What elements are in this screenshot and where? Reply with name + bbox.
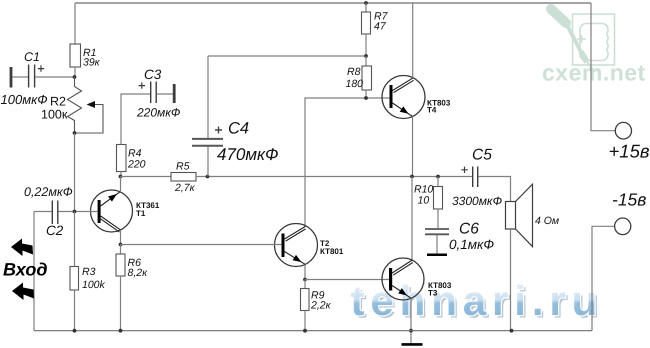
wire T3 collector lead bbox=[411, 177, 413, 260]
wire R1 bottom lead bbox=[74, 67, 76, 77]
capacitor C3 bbox=[139, 82, 175, 104]
wire T1 collector to T2 base bbox=[121, 244, 282, 246]
svg-text:100к: 100к bbox=[41, 108, 68, 122]
transistor T4 bbox=[382, 76, 425, 119]
node R7 top bbox=[364, 1, 368, 5]
wire C4 top lead bbox=[207, 56, 209, 138]
transistor T3 bbox=[382, 258, 424, 300]
input arrow lower bbox=[12, 283, 34, 301]
wire R7 bottom lead bbox=[365, 34, 367, 56]
wire T2 collector to T4 base bbox=[305, 98, 390, 227]
wire R6 bottom lead bbox=[120, 276, 122, 331]
node C4 bottom bbox=[206, 175, 210, 179]
label T3 bbox=[428, 281, 452, 298]
transistor T1 bbox=[91, 190, 133, 232]
R2 wiper arrow bbox=[87, 101, 96, 108]
wire output net bbox=[196, 176, 472, 178]
svg-text:100мкФ: 100мкФ bbox=[1, 92, 48, 107]
wire R4 bottom lead bbox=[120, 172, 122, 177]
svg-text:10: 10 bbox=[418, 195, 430, 207]
capacitor C6 bbox=[425, 229, 449, 234]
cxem.net logo watermark bbox=[551, 9, 615, 72]
speaker bbox=[506, 184, 533, 246]
capacitor C1 bbox=[11, 65, 44, 88]
node R1/C1/R2 bbox=[73, 75, 77, 79]
svg-text:220мкФ: 220мкФ bbox=[136, 106, 181, 120]
node T1 collector / R6 bbox=[119, 243, 123, 247]
wire T3 emitter lead to ground bbox=[410, 298, 412, 343]
wire C1 to R1 node bbox=[35, 76, 75, 78]
node R8/T4 base bbox=[364, 96, 368, 100]
svg-text:Т4: Т4 bbox=[427, 106, 437, 115]
label R4 value bbox=[127, 148, 146, 171]
label R9 value bbox=[310, 290, 332, 312]
wire R2 to base node bbox=[74, 133, 76, 212]
svg-text:R2: R2 bbox=[50, 95, 66, 109]
svg-text:3300мкФ: 3300мкФ bbox=[452, 194, 503, 208]
label R10 value bbox=[414, 184, 433, 207]
svg-text:Т3: Т3 bbox=[428, 289, 438, 298]
svg-text:39к: 39к bbox=[83, 57, 101, 69]
svg-text:R8: R8 bbox=[347, 66, 361, 78]
svg-text:R3: R3 bbox=[82, 266, 96, 278]
wire top rail bbox=[75, 2, 591, 4]
wire R7/R8 bootstrap bbox=[208, 55, 366, 57]
wire T2 emitter to T3 base bbox=[305, 279, 389, 281]
wire R7 top lead bbox=[365, 3, 367, 12]
svg-text:2,7к: 2,7к bbox=[174, 182, 196, 194]
wire R9 bottom lead bbox=[304, 311, 306, 331]
svg-text:220: 220 bbox=[127, 159, 146, 171]
node rail R3 bbox=[73, 329, 77, 333]
potentiometer R2 bbox=[68, 77, 104, 133]
wire C4 bottom lead bbox=[207, 147, 209, 177]
wire T4 collector lead bbox=[412, 3, 414, 78]
resistor R5 bbox=[171, 173, 196, 182]
capacitor C4 bbox=[192, 139, 223, 146]
wire bottom rail bbox=[34, 330, 592, 332]
wire T1 emitter lead bbox=[120, 177, 122, 192]
svg-text:0,22мкФ: 0,22мкФ bbox=[24, 185, 73, 199]
tehnari.ru watermark bbox=[351, 277, 606, 327]
node R10 top bbox=[436, 175, 440, 179]
svg-text:C3: C3 bbox=[144, 67, 162, 82]
wire T2 emitter lead bbox=[304, 265, 306, 280]
svg-text:C2: C2 bbox=[46, 223, 64, 238]
svg-text:КТ801: КТ801 bbox=[320, 247, 344, 256]
wire C2 to T1 base bbox=[58, 211, 97, 213]
label R2 bbox=[41, 95, 68, 122]
node output T4/T3 bbox=[410, 175, 414, 179]
wire R10 bottom lead bbox=[437, 209, 439, 228]
svg-text:+15в: +15в bbox=[609, 141, 650, 162]
label T1 bbox=[136, 201, 160, 218]
wire C6 bottom lead bbox=[436, 235, 438, 254]
wire -15v riser bbox=[592, 226, 615, 330]
node rail R6 bbox=[119, 329, 123, 333]
svg-text:180: 180 bbox=[346, 78, 364, 90]
terminal -15v bbox=[615, 218, 631, 235]
resistor R8 bbox=[362, 66, 372, 90]
svg-text:C4: C4 bbox=[228, 120, 249, 138]
wire T4 emitter lead bbox=[412, 117, 414, 177]
wire +15v riser bbox=[591, 3, 615, 131]
wire emitter node to R5 bbox=[121, 176, 172, 178]
label R7 value bbox=[374, 11, 389, 33]
node T3 emitter / rail bbox=[409, 329, 413, 333]
svg-text:100k: 100k bbox=[82, 279, 106, 291]
svg-text:Т1: Т1 bbox=[136, 209, 146, 218]
svg-text:R5: R5 bbox=[176, 161, 190, 173]
node T1 emitter / R4 / R5 bbox=[119, 175, 123, 179]
svg-text:C5: C5 bbox=[472, 147, 492, 164]
svg-text:C1: C1 bbox=[24, 50, 40, 64]
label R1 value bbox=[83, 47, 101, 69]
resistor R3 bbox=[70, 267, 79, 291]
svg-text:0,1мкФ: 0,1мкФ bbox=[449, 237, 494, 252]
resistor R4 bbox=[117, 145, 127, 172]
C6 ground bar bbox=[427, 254, 447, 257]
wire input to C2 bbox=[34, 211, 52, 213]
node T2 emitter / R9 / T3 base bbox=[303, 278, 307, 282]
wire speaker bottom lead bbox=[510, 229, 512, 331]
node R7/R8/C4 bbox=[364, 54, 368, 58]
wire R1 top lead bbox=[74, 3, 76, 44]
C4 plus sign bbox=[215, 127, 222, 134]
ground bbox=[402, 343, 423, 346]
capacitor C2 bbox=[52, 201, 58, 225]
wire C5 to speaker bbox=[478, 177, 510, 202]
svg-text:tehnari.ru: tehnari.ru bbox=[351, 277, 604, 324]
wire R3 top lead bbox=[74, 212, 76, 267]
node rail speaker bbox=[510, 329, 514, 333]
resistor R9 bbox=[301, 289, 310, 311]
wire input drop bbox=[33, 212, 35, 331]
svg-text:Вход: Вход bbox=[3, 260, 47, 280]
label T2 bbox=[320, 239, 344, 256]
svg-text:C6: C6 bbox=[459, 221, 479, 238]
svg-text:4 Ом: 4 Ом bbox=[535, 215, 559, 227]
svg-text:470мкФ: 470мкФ bbox=[217, 145, 279, 164]
svg-text:47: 47 bbox=[374, 21, 387, 33]
wire R8 top lead bbox=[365, 56, 367, 66]
wire T1 collector lead bbox=[120, 230, 122, 245]
wire R8 bottom lead bbox=[365, 90, 367, 98]
svg-text:cxem.net: cxem.net bbox=[542, 60, 646, 86]
wire R9 top lead bbox=[304, 280, 306, 289]
transistor T2 bbox=[275, 224, 318, 267]
resistor R6 bbox=[116, 254, 125, 276]
svg-text:8,2к: 8,2к bbox=[128, 267, 149, 279]
wire R10 top lead bbox=[437, 177, 439, 187]
node rail R9 bbox=[303, 329, 307, 333]
label T4 bbox=[427, 99, 451, 115]
svg-text:-15в: -15в bbox=[612, 190, 646, 210]
terminal +15v bbox=[615, 122, 631, 139]
label R8 value bbox=[346, 66, 364, 90]
label R6 value bbox=[128, 257, 149, 279]
svg-text:2,2к: 2,2к bbox=[310, 300, 332, 312]
input arrow upper bbox=[11, 239, 33, 257]
node T1 base / R3 / R2 bbox=[73, 210, 77, 214]
wire R6 top lead bbox=[120, 245, 122, 255]
label R3 value bbox=[82, 266, 106, 291]
resistor R10 bbox=[434, 187, 443, 210]
wire R3 bottom lead bbox=[74, 290, 76, 331]
capacitor C5 bbox=[461, 167, 477, 188]
wire C3 branch bbox=[121, 94, 150, 145]
resistor R7 bbox=[362, 12, 371, 34]
node R2 wiper bbox=[73, 131, 77, 135]
resistor R1 bbox=[70, 44, 81, 67]
